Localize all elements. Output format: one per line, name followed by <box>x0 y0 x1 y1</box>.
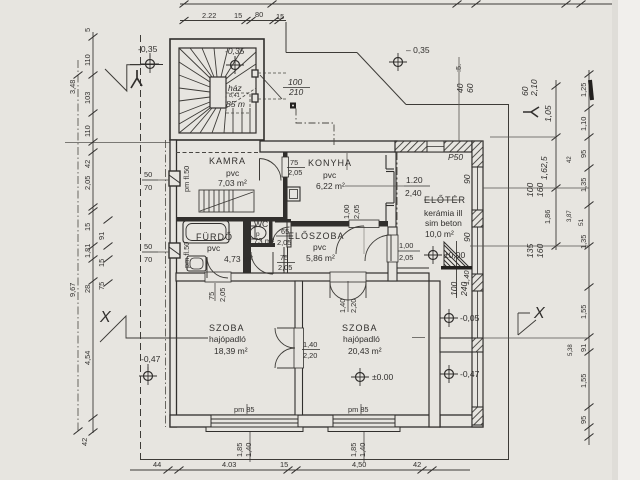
extension line left at top wall level <box>65 142 170 144</box>
top exterior wall (konyha) <box>260 141 397 152</box>
svg-text:80: 80 <box>255 10 263 19</box>
furdo-wc wall vertical <box>243 219 251 277</box>
svg-text:pm 85: pm 85 <box>348 405 369 414</box>
right wall hatched pier 3 <box>472 274 483 291</box>
eloszoba-eloter door arc <box>365 235 391 261</box>
svg-text:1,40: 1,40 <box>462 270 471 285</box>
hall-eloszoba wall piece <box>283 247 285 273</box>
top chain line 2 <box>180 20 286 22</box>
furdo door arc <box>251 252 273 274</box>
svg-text:4,73 m²: 4,73 m² <box>224 254 253 264</box>
eloszoba-eloter door opening <box>387 235 398 262</box>
wc door <box>273 227 290 244</box>
right exterior wall <box>472 141 483 427</box>
svg-text:42: 42 <box>567 156 573 163</box>
marker szoba2 +-0.00 <box>351 368 369 386</box>
svg-text:5: 5 <box>83 28 92 32</box>
svg-text:-0,47: -0,47 <box>141 354 161 364</box>
marker szoba1 -0.47 <box>139 367 157 385</box>
svg-text:42: 42 <box>80 438 89 446</box>
kamra basement stair <box>199 190 254 212</box>
svg-text:110: 110 <box>83 125 92 137</box>
marker terasz -0.47 <box>440 365 458 383</box>
svg-text:X: X <box>533 305 546 322</box>
svg-text:1,40: 1,40 <box>244 443 253 457</box>
svg-text:2,10: 2,10 <box>529 79 539 97</box>
svg-text:2,05: 2,05 <box>218 288 227 302</box>
svg-text:2,40: 2,40 <box>405 188 422 198</box>
svg-text:WC: WC <box>254 219 268 229</box>
svg-text:ház: ház <box>228 83 242 93</box>
bathtub <box>183 221 229 243</box>
svg-text:P50: P50 <box>448 152 463 162</box>
svg-text:KONYHA: KONYHA <box>308 158 352 168</box>
svg-text:pvc: pvc <box>226 168 240 178</box>
right leaders <box>483 187 589 189</box>
kamra-konyha wall <box>283 152 288 221</box>
szoba1 door opening in middle wall <box>205 272 231 282</box>
wall light symbol right <box>523 107 539 117</box>
wall light symbol left <box>131 70 142 88</box>
svg-text:70: 70 <box>144 183 152 192</box>
stair newel box <box>210 77 226 108</box>
svg-text:1,55: 1,55 <box>579 374 588 388</box>
stair dashed diagonal <box>226 88 256 108</box>
szoba2 right exterior wall <box>429 281 440 427</box>
svg-text:15: 15 <box>97 259 106 267</box>
svg-text:1,05: 1,05 <box>543 105 553 122</box>
right wall hatched pier 2 <box>472 210 483 227</box>
svg-text:91: 91 <box>97 232 106 240</box>
szoba1-szoba2 wall <box>295 281 303 415</box>
eloter bottom boundary line <box>397 267 429 269</box>
scan right edge light band <box>617 0 640 480</box>
svg-text:100: 100 <box>449 282 459 296</box>
right chain B line <box>588 70 590 445</box>
svg-text:pvc: pvc <box>313 242 327 252</box>
svg-text:pm 85: pm 85 <box>234 405 255 414</box>
konyha window dim 1.20/2.40 <box>345 185 404 187</box>
svg-text:2,05: 2,05 <box>399 253 413 262</box>
svg-text:-0,05: -0,05 <box>460 313 480 323</box>
top wall of eloter (hatched) <box>395 141 472 152</box>
kamra-furdo wall <box>176 217 283 222</box>
svg-text:1,40: 1,40 <box>358 443 367 457</box>
eloszoba-szoba2 double door <box>330 282 366 300</box>
svg-text:0,73 m²: 0,73 m² <box>247 237 274 246</box>
konyha-eloszoba door opening <box>349 220 379 228</box>
stair block outer walls <box>170 39 264 140</box>
eloter marker extension line <box>456 241 458 298</box>
svg-text:-0,35: -0,35 <box>138 44 158 54</box>
szoba door opening in szoba1-szoba2 wall <box>294 328 304 368</box>
X right leader <box>518 313 536 335</box>
svg-text:X: X <box>99 309 112 326</box>
svg-text:15: 15 <box>234 11 242 20</box>
top chain line 1 <box>180 3 612 5</box>
left overall line dash <box>77 60 79 431</box>
svg-text:pvc: pvc <box>323 170 337 180</box>
svg-text:135: 135 <box>525 244 535 258</box>
wc top stub to eloszoba <box>275 219 291 223</box>
svg-text:210: 210 <box>288 87 303 97</box>
roof outline top horizontal <box>406 104 509 106</box>
washbasin <box>187 256 206 271</box>
konyha-eloszoba wall <box>287 221 388 227</box>
svg-text:18,39 m²: 18,39 m² <box>214 346 248 356</box>
roof outline upper vertical connector <box>285 22 287 53</box>
svg-text:±0.00: ±0.00 <box>372 372 393 382</box>
svg-text:1.20: 1.20 <box>406 175 423 185</box>
left chain line <box>92 32 94 433</box>
svg-text:hajópadló: hajópadló <box>209 334 246 344</box>
svg-text:160: 160 <box>535 183 545 197</box>
right chain B labels <box>567 83 588 424</box>
stair treads fan left <box>179 48 210 133</box>
svg-text:75: 75 <box>97 282 106 290</box>
marker left -0.35 <box>141 55 159 73</box>
svg-text:hajópadló: hajópadló <box>343 334 380 344</box>
svg-text:1,55: 1,55 <box>579 305 588 319</box>
bottom chain line <box>130 469 470 471</box>
svg-text:FÜRDŐ: FÜRDŐ <box>196 232 233 242</box>
svg-text:160: 160 <box>535 244 545 258</box>
svg-text:20,43 m²: 20,43 m² <box>348 346 382 356</box>
svg-text:15: 15 <box>83 223 92 231</box>
svg-text:1,40: 1,40 <box>303 340 317 349</box>
svg-text:90: 90 <box>462 174 472 184</box>
svg-text:4,54: 4,54 <box>83 351 92 365</box>
svg-text:sim beton: sim beton <box>425 218 462 228</box>
right wall hatched pier 1 <box>472 141 483 167</box>
svg-text:40: 40 <box>455 83 465 93</box>
svg-text:2,05: 2,05 <box>352 205 361 219</box>
svg-text:1,81: 1,81 <box>83 244 92 258</box>
dash-dot line from box to konyha wall <box>296 109 334 148</box>
marker terasz -0.05 <box>440 309 458 327</box>
svg-text:pvc: pvc <box>207 243 221 253</box>
svg-text:60: 60 <box>465 83 475 93</box>
terasz cross wall stub <box>440 338 472 352</box>
bottom exterior wall right part <box>440 415 483 427</box>
marker eloter +-0.00 <box>424 246 442 264</box>
level marker stair <box>226 56 244 74</box>
svg-text:1,85: 1,85 <box>235 443 244 457</box>
site boundary right <box>508 105 510 460</box>
left chain ticks <box>74 34 113 436</box>
svg-text:75: 75 <box>280 253 288 262</box>
kamra-konyha door opening <box>282 157 289 177</box>
svg-text:15: 15 <box>276 12 284 21</box>
svg-text:50: 50 <box>144 170 152 179</box>
roof outline upper horizontal <box>286 52 357 54</box>
marker top -0.35 <box>389 53 407 71</box>
konyha-eloszoba door arc <box>336 226 364 254</box>
stair treads fan top <box>190 48 256 84</box>
dash-dot section line along left wall <box>165 140 167 427</box>
svg-text:2,05: 2,05 <box>288 168 302 177</box>
svg-text:kerámia ill: kerámia ill <box>424 208 462 218</box>
svg-text:2,20: 2,20 <box>349 299 358 313</box>
leader diagonal to 100/210 <box>260 75 282 99</box>
svg-text:91: 91 <box>579 344 588 352</box>
wc bottom wall <box>246 243 275 247</box>
konyha door jamb extension <box>346 153 348 170</box>
stair treads fan bottom <box>190 108 250 133</box>
szoba1 door arc <box>207 257 228 278</box>
site boundary dashed left <box>140 35 142 459</box>
svg-text:±0,00: ±0,00 <box>444 250 465 260</box>
kamra-stair door <box>260 159 282 181</box>
bottom exterior wall <box>170 415 440 427</box>
svg-text:1,62,5: 1,62,5 <box>539 156 549 180</box>
kamra ceiling dashed line under stair <box>176 152 260 154</box>
junction box symbol <box>290 103 296 109</box>
svg-text:103: 103 <box>83 92 92 104</box>
szoba2 window <box>328 415 400 432</box>
svg-text:5,38: 5,38 <box>568 344 574 356</box>
svg-text:1,00: 1,00 <box>399 241 413 250</box>
svg-text:100: 100 <box>525 183 535 197</box>
svg-text:9,67: 9,67 <box>68 283 77 297</box>
svg-text:2,05: 2,05 <box>83 176 92 190</box>
left chain labels rotated <box>68 28 106 446</box>
wc right wall <box>269 219 273 247</box>
szoba1-szoba2 double door <box>275 328 295 368</box>
svg-text:2,20: 2,20 <box>303 351 317 360</box>
stair niche lower on right wall <box>252 94 258 102</box>
svg-text:10,0 m²: 10,0 m² <box>425 229 454 239</box>
svg-text:pm fl.50: pm fl.50 <box>182 166 191 192</box>
svg-text:5,86 m²: 5,86 m² <box>306 253 335 263</box>
dash-dot old wall line right of konyha <box>396 152 398 268</box>
right wall hatched pier 5 <box>472 407 483 425</box>
svg-text:3,87: 3,87 <box>567 210 573 222</box>
dashed lines from niches <box>258 72 288 74</box>
svg-text:100: 100 <box>288 77 302 87</box>
svg-text:ELŐSZOBA: ELŐSZOBA <box>288 231 345 241</box>
svg-text:95: 95 <box>579 150 588 158</box>
svg-text:-0,47: -0,47 <box>460 369 480 379</box>
svg-text:7,03 m²: 7,03 m² <box>218 178 247 188</box>
svg-text:1,25: 1,25 <box>579 83 588 97</box>
svg-text:44: 44 <box>153 460 161 469</box>
eloszoba left wall stub <box>287 222 291 247</box>
svg-text:70: 70 <box>144 255 152 264</box>
stair block inner walls <box>179 48 256 133</box>
eloter exterior step triangle <box>444 242 470 268</box>
svg-text:95: 95 <box>579 416 588 424</box>
right chain heavy ink blob <box>590 80 592 100</box>
svg-text:4,50: 4,50 <box>352 460 366 469</box>
svg-text:15: 15 <box>280 460 288 469</box>
svg-text::5.: :5. <box>454 64 463 72</box>
svg-text:75: 75 <box>290 158 298 167</box>
svg-text:SZOBA: SZOBA <box>342 323 378 333</box>
svg-text:28: 28 <box>83 285 92 293</box>
svg-text:1,35: 1,35 <box>579 178 588 192</box>
svg-text:SZOBA: SZOBA <box>209 323 245 333</box>
szoba2 door opening in middle wall <box>330 272 366 282</box>
svg-text:1,85: 1,85 <box>349 443 358 457</box>
svg-text:2.22: 2.22 <box>202 11 216 20</box>
svg-text:-0,35: -0,35 <box>225 46 245 56</box>
window in eloter top wall <box>427 141 444 152</box>
leader zigzag top left <box>105 65 141 91</box>
svg-text:2,05: 2,05 <box>278 263 292 272</box>
svg-text:85 m: 85 m <box>226 99 245 109</box>
svg-text:50: 50 <box>144 242 152 251</box>
svg-text:110: 110 <box>83 54 92 66</box>
right chain A line <box>555 80 557 250</box>
stair niche upper on right wall <box>252 70 258 77</box>
svg-text:KAMRA: KAMRA <box>209 156 246 166</box>
szoba1 window <box>206 415 303 432</box>
wc toilet <box>250 227 266 240</box>
konyha stove square <box>287 187 300 201</box>
left exterior wall <box>170 140 177 427</box>
svg-text:1,86: 1,86 <box>543 210 552 224</box>
svg-text:1,00: 1,00 <box>342 205 351 219</box>
svg-text:1,40: 1,40 <box>338 299 347 313</box>
chimney upper 50/70 <box>169 171 180 186</box>
svg-text:1,35: 1,35 <box>579 235 588 249</box>
konyha-eloter wall <box>386 152 396 227</box>
svg-text:– 0,35: – 0,35 <box>406 45 430 55</box>
svg-text:4.03: 4.03 <box>222 460 236 469</box>
svg-text:6,22 m²: 6,22 m² <box>316 181 345 191</box>
svg-text:90: 90 <box>462 232 472 242</box>
svg-text:1,10: 1,10 <box>579 117 588 131</box>
roof outline diagonal <box>357 53 406 105</box>
svg-text:42: 42 <box>413 460 421 469</box>
site boundary bottom <box>140 459 509 461</box>
right wall middle glazing lines <box>477 167 479 407</box>
middle wall (eloszoba - szoba) <box>176 273 429 281</box>
svg-text:42: 42 <box>83 160 92 168</box>
right wall hatched pier 4 <box>472 338 483 352</box>
chimney lower 50/70 <box>169 243 180 258</box>
stair dashed landing <box>226 93 250 113</box>
eloszoba-eloter wall <box>388 227 397 281</box>
right chain A labels <box>539 105 553 224</box>
X leader to hajopadlo <box>100 316 208 342</box>
handwritten right wall dims <box>448 79 545 297</box>
svg-text:51: 51 <box>578 218 585 226</box>
svg-text:3,48: 3,48 <box>68 80 77 94</box>
